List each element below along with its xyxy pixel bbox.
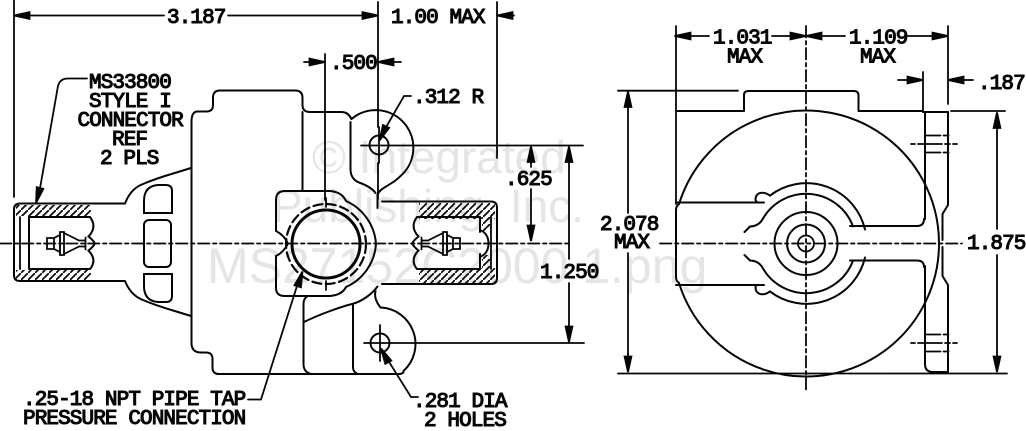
dim 2.078 MAX	[625, 92, 632, 373]
extension line x=923 (.187)	[922, 72, 924, 110]
watermark	[207, 131, 707, 294]
vertical centerline right view	[805, 26, 807, 393]
left clamp cone top edge	[125, 168, 191, 204]
svg-text:MAX: MAX	[614, 232, 650, 255]
bracket right shoulder	[859, 110, 924, 112]
svg-text:.500: .500	[330, 53, 377, 76]
bottom extension line shared	[618, 373, 1007, 375]
horseshoe lower outer arc	[770, 258, 865, 304]
bracket left shoulder	[676, 110, 744, 112]
horseshoe upper inner arc	[763, 194, 853, 227]
svg-text:1.250: 1.250	[540, 262, 599, 285]
centerline horizontal left view	[0, 243, 572, 245]
flange inner edge	[925, 112, 933, 372]
NPT vertical center ticks	[325, 198, 327, 290]
svg-text:3.187: 3.187	[167, 7, 226, 30]
top boss around upper hole	[352, 110, 414, 208]
left connector inner shell line	[19, 217, 21, 269]
right channel top line	[850, 219, 924, 226]
center circles	[775, 212, 838, 275]
left connector hatch top band	[16, 205, 91, 216]
upper hole centerline extension	[361, 145, 583, 147]
dim 2.078 MAX extension top	[618, 90, 738, 92]
body bottom edge	[217, 373, 400, 375]
NPT saddle outline	[276, 191, 376, 296]
left connector shell	[14, 204, 124, 282]
dim .625	[528, 147, 535, 242]
dim .187	[898, 77, 973, 84]
left connector hatch bottom band	[16, 270, 91, 280]
svg-text:.625: .625	[505, 169, 552, 192]
label MS33800 STYLE I CONNECTOR REF 2 PLS	[78, 72, 185, 171]
dim .500	[304, 59, 401, 66]
cone bottom S-curve	[304, 287, 378, 323]
horseshoe lower inner arc	[763, 261, 853, 294]
dim 3.187	[14, 12, 378, 19]
NPT dashed thread circle	[286, 204, 366, 284]
dim 1.250	[566, 147, 573, 343]
bottom boss around lower hole	[375, 291, 415, 374]
svg-text:.187: .187	[978, 73, 1025, 96]
clamp vent hole middle	[144, 220, 171, 267]
left connector cavity	[29, 217, 90, 269]
dim 1.031 MAX	[675, 33, 806, 40]
left flat edge	[676, 204, 679, 283]
extension line x=497 (1.00 right)	[496, 2, 498, 158]
lower hole (.281)	[371, 334, 390, 353]
svg-text:2 PLS: 2 PLS	[100, 148, 159, 171]
upper hole (.281)	[370, 136, 389, 155]
left connector brace (socket opening)	[89, 217, 96, 269]
clamp vent hole top	[144, 185, 172, 213]
dim 1.00 MAX	[497, 12, 514, 19]
top plate edge	[351, 122, 376, 193]
body left edge	[191, 121, 193, 345]
NPT solid circle	[292, 210, 360, 278]
dim 1.875	[994, 113, 1001, 373]
left slot bottom line	[676, 284, 764, 286]
leader for MS33800	[33, 79, 87, 204]
svg-text:1.00 MAX: 1.00 MAX	[391, 7, 486, 30]
pipe boss lower edge	[304, 296, 312, 374]
horseshoe upper outer arc	[770, 183, 865, 229]
extension line x=675 (1.031)	[675, 26, 677, 204]
flange hidden lines upper	[911, 136, 960, 153]
lower hole centerline extension	[364, 342, 584, 344]
right connector hatch right wall	[482, 218, 490, 231]
pipe boss upper edge	[302, 112, 304, 190]
horseshoe lower left cap	[755, 285, 770, 294]
extension line x=378 (3.187 right / 1.00 left / holes)	[377, 2, 379, 199]
left connector pin contact	[47, 232, 86, 255]
dim 1.109 MAX	[806, 33, 948, 40]
clamp vent hole bottom	[144, 274, 172, 302]
flange outer edge	[943, 112, 949, 372]
extension line x=325 (.500 left)	[324, 54, 326, 200]
svg-text:.312 R: .312 R	[413, 87, 485, 110]
right connector inner shell line	[490, 217, 492, 269]
extension line x=948 (1.109/.187)	[947, 26, 949, 104]
label .25-18 NPT PIPE TAP PRESSURE CONNECTION with leader	[23, 389, 246, 431]
bracket tab top	[744, 91, 859, 111]
big circle with left flat	[679, 110, 939, 376]
svg-text:MAX: MAX	[727, 47, 763, 70]
lower hole vertical tick	[379, 325, 381, 361]
horseshoe upper left cap	[755, 193, 770, 203]
svg-text:1.875: 1.875	[967, 233, 1026, 256]
right connector pin contact	[422, 232, 461, 255]
right connector wall notch	[480, 230, 489, 257]
label .281 DIA 2 HOLES with leader	[413, 391, 508, 431]
dim 1.875 extension top	[951, 110, 1005, 112]
horseshoe upper left stub and tick	[745, 219, 764, 233]
left clamp cone bottom edge	[125, 281, 191, 316]
body outline top	[192, 91, 352, 123]
bottom plate edge	[353, 305, 357, 374]
body bottom-left step	[192, 343, 220, 374]
upper hole vertical tick	[378, 127, 380, 163]
left slot top line	[676, 202, 764, 204]
flange top edge	[923, 111, 948, 113]
right connector cavity	[417, 217, 480, 269]
flange bottom edge	[930, 371, 948, 373]
extension line left (3.187)	[13, 0, 15, 197]
horseshoe lower left stub and tick	[745, 255, 764, 269]
right channel bottom line	[850, 261, 924, 268]
right connector hatch bottom band	[419, 268, 495, 283]
flange hidden lines lower	[911, 335, 960, 352]
horizontal centerline right view	[660, 243, 962, 245]
right connector brace	[412, 217, 419, 269]
svg-text:2 HOLES: 2 HOLES	[424, 410, 506, 431]
right connector shell	[382, 202, 497, 285]
right connector hatch top band	[419, 203, 495, 219]
svg-text:PRESSURE CONNECTION: PRESSURE CONNECTION	[23, 408, 245, 431]
svg-text:MAX: MAX	[860, 47, 896, 70]
